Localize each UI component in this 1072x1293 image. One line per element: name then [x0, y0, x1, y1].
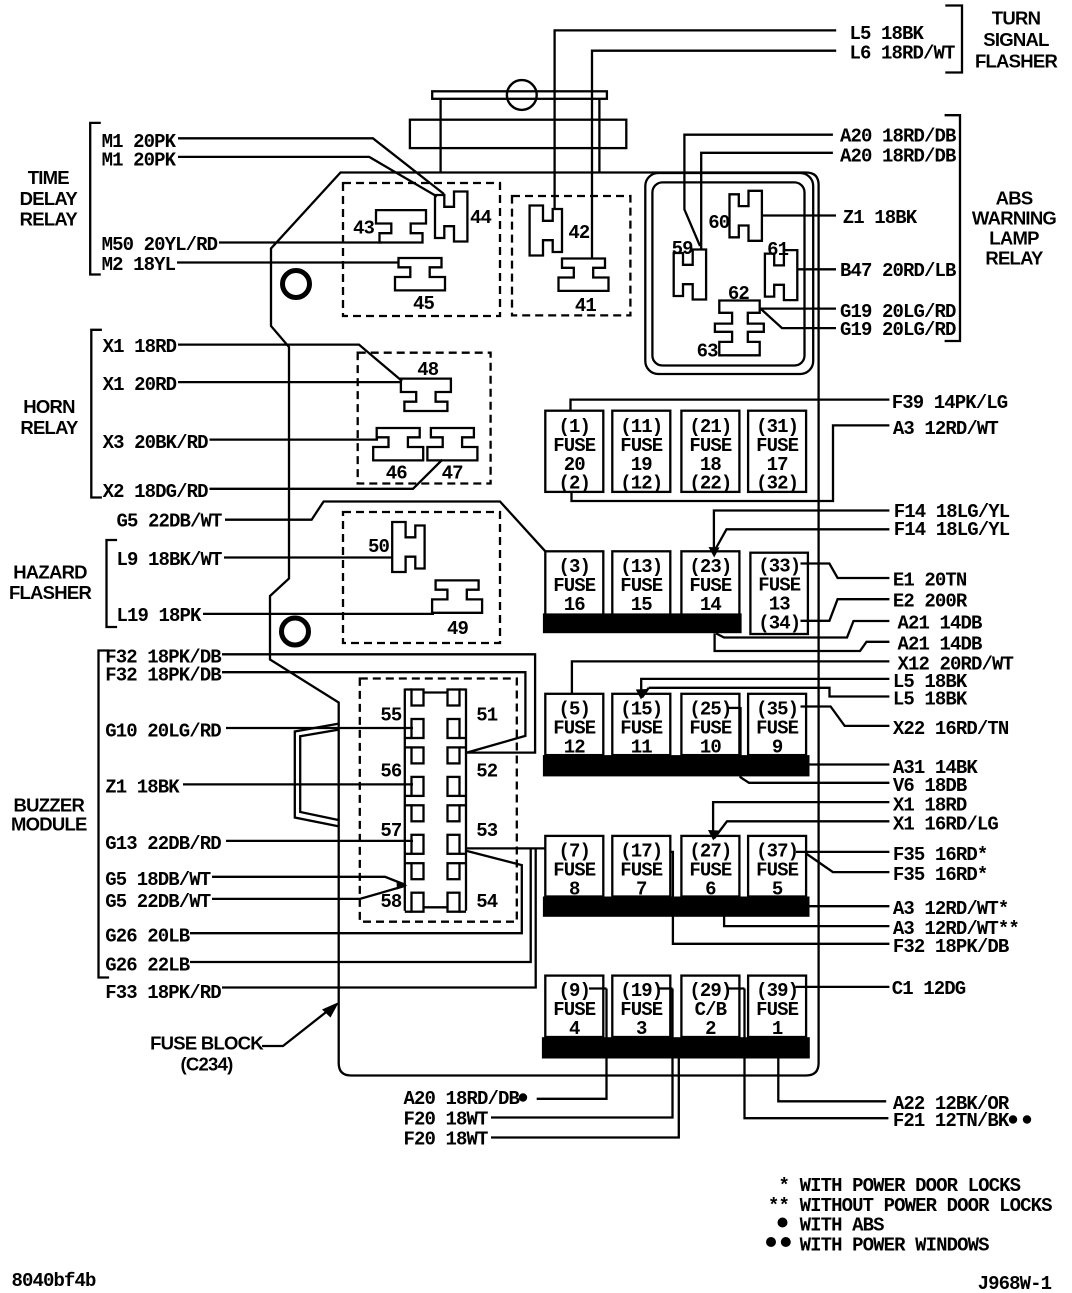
fuse 9 box: [748, 694, 806, 755]
svg-text:44: 44: [470, 207, 492, 229]
bracket ABS warning lamp relay: [945, 115, 960, 341]
svg-text:WITH POWER WINDOWS: WITH POWER WINDOWS: [800, 1234, 990, 1256]
svg-text:G26 20LB: G26 20LB: [105, 925, 190, 947]
wire L19 to contact 49: [203, 613, 434, 615]
svg-text:F21 12TN/BK: F21 12TN/BK: [893, 1110, 1010, 1132]
fuse 17 box: [748, 411, 806, 492]
wire A20 bottom to fuse 4: [537, 989, 607, 1099]
wire L9 to contact 50: [224, 556, 392, 558]
wire X1 20RD to contact 48: [178, 381, 402, 383]
svg-text:L5 18BK: L5 18BK: [850, 23, 925, 45]
connector top thin bar: [432, 91, 607, 99]
svg-text:HORN: HORN: [23, 396, 75, 417]
wire A22 from bus bar: [778, 1059, 886, 1102]
svg-text:50: 50: [368, 536, 390, 558]
svg-text:A21 14DB: A21 14DB: [898, 613, 983, 635]
svg-text:M2 18YL: M2 18YL: [102, 254, 176, 276]
svg-text:4: 4: [569, 1018, 580, 1040]
L5 arrow tip: [636, 689, 647, 700]
fuse 15 box: [612, 551, 670, 615]
wire G19-2 to contact 62: [761, 309, 836, 328]
wire A21-2 from bus bar: [715, 633, 890, 651]
wire X1 18RD to contact 48: [178, 345, 402, 381]
relay contact 50: [392, 522, 424, 572]
svg-text:16: 16: [564, 594, 586, 616]
svg-text:X3 20BK/RD: X3 20BK/RD: [103, 432, 209, 454]
svg-text:52: 52: [476, 760, 498, 782]
svg-text:43: 43: [353, 218, 375, 240]
G5 arrow tip: [397, 882, 408, 890]
wire L5 arrow leg: [642, 688, 649, 698]
fuse 16 box: [545, 551, 603, 615]
svg-text:59: 59: [672, 238, 694, 260]
svg-text:*: *: [778, 1175, 789, 1197]
fuse 6 box: [681, 836, 739, 897]
svg-text:(32): (32): [756, 473, 798, 495]
fuse block pointer arrow: [262, 1009, 330, 1046]
buzzer connector body: [405, 689, 466, 912]
svg-text:8040bf4b: 8040bf4b: [12, 1270, 97, 1292]
svg-text:C1 12DG: C1 12DG: [892, 978, 966, 1000]
wire L6 to contact 41: [592, 51, 836, 259]
svg-text:F20 18WT: F20 18WT: [404, 1109, 489, 1131]
relay contact 42: [530, 206, 562, 256]
svg-text:G13 22DB/RD: G13 22DB/RD: [105, 833, 221, 855]
fuse 4 box: [545, 976, 603, 1037]
svg-text:(2): (2): [559, 473, 591, 495]
relay contact 49: [432, 580, 482, 612]
svg-text:G10 20LG/RD: G10 20LG/RD: [105, 720, 221, 742]
svg-text:1: 1: [772, 1018, 783, 1040]
mounting hole circle lower: [282, 618, 309, 645]
svg-text:L6 18RD/WT: L6 18RD/WT: [850, 43, 956, 65]
svg-text:ABS: ABS: [996, 187, 1033, 208]
wire left edge bump inner: [300, 730, 339, 821]
svg-text:X1 18RD: X1 18RD: [103, 336, 177, 358]
wire G13 to pin 57: [226, 840, 413, 842]
ABS relay inner box: [652, 182, 804, 365]
svg-text:56: 56: [380, 760, 402, 782]
fuse 10 box: [681, 694, 739, 755]
svg-text:LAMP: LAMP: [989, 228, 1039, 249]
fuse 19 box: [612, 411, 670, 492]
wire M1-1 to contact 44: [178, 138, 444, 194]
svg-text:FLASHER: FLASHER: [9, 582, 92, 603]
wire pin 53 to fuse 8: [467, 847, 545, 849]
wire 19 stub: [658, 987, 673, 989]
wire C1 from fuse 1: [796, 986, 890, 988]
svg-text:G5 22DB/WT: G5 22DB/WT: [105, 891, 211, 913]
relay contact 61: [765, 250, 797, 300]
relay contact 44: [435, 192, 467, 242]
svg-text:E2 200R: E2 200R: [893, 591, 968, 613]
wire F32-1 to pin 52: [222, 654, 535, 752]
wire X3 to contact 46: [210, 438, 379, 440]
svg-text:51: 51: [476, 705, 498, 727]
wire A20-1 to contact 59: [684, 135, 833, 246]
svg-text:(22): (22): [689, 473, 731, 495]
svg-text:**: **: [768, 1195, 789, 1217]
wire 29 stub: [726, 987, 744, 989]
svg-text:L5 18BK: L5 18BK: [893, 689, 968, 711]
wire connector post left: [439, 99, 441, 173]
svg-text:42: 42: [568, 222, 590, 244]
horn relay dashed box: [358, 353, 491, 484]
svg-text:A20 18RD/DB: A20 18RD/DB: [840, 146, 956, 168]
relay contact 47: [427, 428, 477, 460]
wire A3** from bus bar: [724, 916, 889, 926]
X1 arrow tip: [708, 830, 719, 841]
bracket time delay relay: [90, 123, 101, 275]
wire F20-2 to bus bar: [491, 1059, 679, 1138]
svg-text:47: 47: [442, 463, 464, 485]
buzzer module dashed box: [360, 679, 517, 922]
bracket horn relay: [91, 330, 102, 498]
svg-text:55: 55: [380, 705, 402, 727]
fuse 14 box: [681, 551, 739, 615]
svg-text:FLASHER: FLASHER: [975, 50, 1058, 71]
svg-text:MODULE: MODULE: [11, 814, 87, 835]
bus bar row5: [542, 1037, 810, 1058]
wire M1-2 to contact 44: [178, 157, 437, 197]
connector lower bar: [410, 120, 626, 148]
svg-text:X22 16RD/TN: X22 16RD/TN: [893, 718, 1009, 740]
A20 with-ABS dot: [519, 1093, 527, 1101]
fuse 1 box: [748, 976, 806, 1037]
wire M2 to contact 45: [177, 261, 399, 263]
F14 arrow tip: [709, 547, 720, 558]
footnote dot mark: [778, 1218, 788, 1228]
svg-text:X1 16RD/LG: X1 16RD/LG: [893, 814, 999, 836]
svg-text:58: 58: [380, 891, 402, 913]
svg-text:A3 12RD/WT: A3 12RD/WT: [893, 418, 999, 440]
svg-text:WITH ABS: WITH ABS: [800, 1215, 885, 1237]
wire L5-3 from fuse 11: [649, 688, 890, 697]
wire G5 22DB/WT to pin 58: [212, 886, 405, 899]
wire G19-1 to contact 62: [760, 307, 836, 309]
svg-text:62: 62: [728, 283, 750, 305]
wire F32-2 to pin 52: [222, 672, 525, 752]
fuse 8 box: [545, 836, 603, 897]
relay contact 41: [559, 259, 609, 291]
wire Z1 to contact 60: [762, 214, 836, 216]
fuse block outline C234: [270, 173, 819, 1076]
bus bar row3: [543, 755, 810, 776]
svg-text:3: 3: [636, 1018, 647, 1040]
wire G10 to pin 55: [226, 727, 413, 729]
svg-text:Z1 18BK: Z1 18BK: [105, 777, 180, 799]
wire F14-1 to fuse 14: [714, 511, 890, 549]
svg-text:F33 18PK/RD: F33 18PK/RD: [105, 982, 221, 1004]
svg-text:(12): (12): [620, 473, 662, 495]
svg-text:A21 14DB: A21 14DB: [898, 634, 983, 656]
relay contact 46: [373, 428, 423, 460]
svg-text:A20 18RD/DB: A20 18RD/DB: [404, 1088, 520, 1110]
hazard flasher dashed box: [343, 512, 500, 643]
wire B47 to contact 61: [798, 268, 837, 270]
svg-text:TIME: TIME: [28, 167, 70, 188]
svg-text:F20 18WT: F20 18WT: [404, 1129, 489, 1151]
fuse 12 box: [545, 694, 603, 755]
svg-text:F32 18PK/DB: F32 18PK/DB: [105, 665, 221, 687]
wire A3 from fuse 20: [572, 425, 890, 501]
ABS relay outer box: [645, 173, 813, 374]
svg-text:L19 18PK: L19 18PK: [117, 605, 203, 627]
relay contact 45: [395, 258, 445, 290]
wire F33 junction: [222, 848, 536, 987]
relay contact 60: [730, 191, 762, 241]
svg-text:J968W-1: J968W-1: [978, 1273, 1052, 1293]
wire F20-1 to fuse 3: [491, 989, 673, 1118]
fuse 3 box: [612, 976, 670, 1037]
svg-text:WITHOUT POWER DOOR LOCKS: WITHOUT POWER DOOR LOCKS: [800, 1195, 1053, 1217]
svg-text:WARNING: WARNING: [972, 208, 1057, 229]
bracket buzzer module: [99, 651, 110, 978]
connector mounting circle: [507, 80, 537, 110]
svg-text:DELAY: DELAY: [20, 188, 79, 209]
mounting hole circle upper: [283, 271, 310, 298]
wire G5 18DB/WT to pin 58: [212, 877, 405, 885]
svg-text:41: 41: [575, 295, 597, 317]
wire L5 to contact 42: [555, 30, 837, 210]
svg-text:FUSE BLOCK: FUSE BLOCK: [150, 1033, 264, 1054]
svg-text:45: 45: [413, 293, 435, 315]
wire X1 to fuse 6: [713, 802, 889, 837]
relay 42/41 dashed box: [512, 196, 630, 315]
wire A31 from bus bar: [810, 763, 890, 765]
svg-text:F35 16RD*: F35 16RD*: [893, 864, 988, 886]
svg-text:SIGNAL: SIGNAL: [983, 29, 1049, 50]
svg-text:2: 2: [705, 1018, 716, 1040]
svg-text:10: 10: [700, 736, 722, 758]
svg-text:12: 12: [564, 736, 586, 758]
wire connector post right: [598, 99, 600, 173]
svg-text:61: 61: [767, 239, 789, 261]
fuse 20 box: [545, 411, 603, 492]
bracket turn signal flasher: [945, 6, 962, 73]
svg-text:15: 15: [631, 594, 653, 616]
wire G5 22DB/WT to fuse 16: [225, 502, 545, 552]
fuse 13 box: [750, 553, 808, 634]
relay contact 62/63: [715, 301, 764, 356]
wire G26 22LB junction: [190, 848, 531, 962]
wire E2 from fuse 13: [801, 599, 890, 621]
fuse 5 box: [748, 836, 806, 897]
svg-text:(C234): (C234): [180, 1054, 233, 1075]
wire L5-2 to fuse 11: [641, 679, 889, 694]
svg-text:11: 11: [631, 736, 653, 758]
fuse 7 box: [612, 836, 670, 897]
svg-text:L9 18BK/WT: L9 18BK/WT: [117, 549, 223, 571]
svg-text:F39 14PK/LG: F39 14PK/LG: [892, 392, 1008, 414]
time delay relay dashed box: [343, 183, 500, 316]
svg-text:F35 16RD*: F35 16RD*: [893, 844, 988, 866]
svg-text:G5 22DB/WT: G5 22DB/WT: [117, 511, 223, 533]
svg-text:G26 22LB: G26 22LB: [105, 954, 190, 976]
breaker 2 box: [681, 976, 739, 1037]
wire A3* from bus bar: [810, 905, 890, 907]
svg-text:F32 18PK/DB: F32 18PK/DB: [893, 936, 1009, 958]
svg-text:G5 18DB/WT: G5 18DB/WT: [105, 869, 211, 891]
wire F21 to breaker 2: [745, 989, 889, 1119]
fuse 18 box: [681, 411, 739, 492]
wire V6 from fuse 10: [741, 707, 890, 783]
svg-text:57: 57: [380, 820, 402, 842]
svg-text:TURN: TURN: [992, 8, 1041, 29]
svg-text:63: 63: [697, 341, 719, 363]
wire X12 to fuse 12: [572, 661, 890, 694]
svg-text:RELAY: RELAY: [985, 248, 1044, 269]
svg-text:53: 53: [476, 820, 498, 842]
svg-text:X2 18DG/RD: X2 18DG/RD: [103, 481, 209, 503]
svg-text:E1 20TN: E1 20TN: [893, 570, 967, 592]
footnote double dot mark: [766, 1237, 776, 1247]
svg-text:M1 20PK: M1 20PK: [102, 150, 177, 172]
svg-text:(34): (34): [758, 613, 800, 635]
wire X1 16RD to fuse 6: [714, 821, 889, 838]
svg-text:HAZARD: HAZARD: [13, 562, 87, 583]
wire X22 from fuse 9: [801, 707, 890, 726]
svg-text:X1 20RD: X1 20RD: [103, 374, 177, 396]
bus bar row4 A3: [543, 897, 810, 917]
svg-text:9: 9: [772, 736, 783, 758]
wire 9 stub: [589, 987, 607, 989]
wire F14-2 to fuse 14: [716, 529, 890, 549]
svg-text:49: 49: [447, 618, 469, 640]
wire F35-1 from fuse 5: [796, 851, 889, 853]
svg-text:14: 14: [700, 594, 722, 616]
F21 power windows dots: [1009, 1115, 1017, 1123]
svg-text:A3 12RD/WT*: A3 12RD/WT*: [893, 898, 1009, 920]
svg-text:60: 60: [708, 212, 730, 234]
svg-text:M50 20YL/RD: M50 20YL/RD: [102, 234, 218, 256]
svg-text:54: 54: [476, 891, 498, 913]
wire left edge bump outer: [295, 724, 340, 827]
svg-text:G19 20LG/RD: G19 20LG/RD: [840, 319, 956, 341]
wire F32 from fuse 7: [671, 852, 890, 944]
wire A21-1 from bus bar: [716, 621, 889, 638]
svg-text:Z1 18BK: Z1 18BK: [843, 207, 918, 229]
fuse 11 box: [612, 694, 670, 755]
wire F39 to fuse 20: [571, 400, 890, 411]
wire F35-2 from fuse 5: [806, 854, 889, 873]
wire 25 stub: [728, 707, 741, 709]
bracket hazard flasher: [107, 540, 118, 627]
wire M50 to contact 43: [219, 241, 382, 243]
wire A20-2 to contact 59: [701, 153, 833, 250]
bus bar row2: [543, 613, 742, 633]
svg-text:A20 18RD/DB: A20 18RD/DB: [840, 126, 956, 148]
svg-text:RELAY: RELAY: [20, 209, 79, 230]
svg-text:RELAY: RELAY: [20, 417, 79, 438]
svg-text:BUZZER: BUZZER: [14, 795, 85, 816]
svg-text:46: 46: [386, 463, 408, 485]
svg-text:F14 18LG/YL: F14 18LG/YL: [894, 519, 1010, 541]
wire Z1 to pin 56: [183, 783, 413, 785]
svg-text:48: 48: [417, 359, 439, 381]
svg-text:WITH POWER DOOR LOCKS: WITH POWER DOOR LOCKS: [800, 1175, 1021, 1197]
wire E1 from fuse 13: [801, 564, 890, 579]
wire X2 to contact 47: [210, 460, 443, 489]
svg-text:B47 20RD/LB: B47 20RD/LB: [840, 260, 956, 282]
relay contact 43: [376, 210, 426, 242]
relay contact 59: [674, 250, 706, 300]
relay contact 48: [401, 379, 451, 411]
wire G26 20LB to pin 53: [190, 851, 522, 933]
